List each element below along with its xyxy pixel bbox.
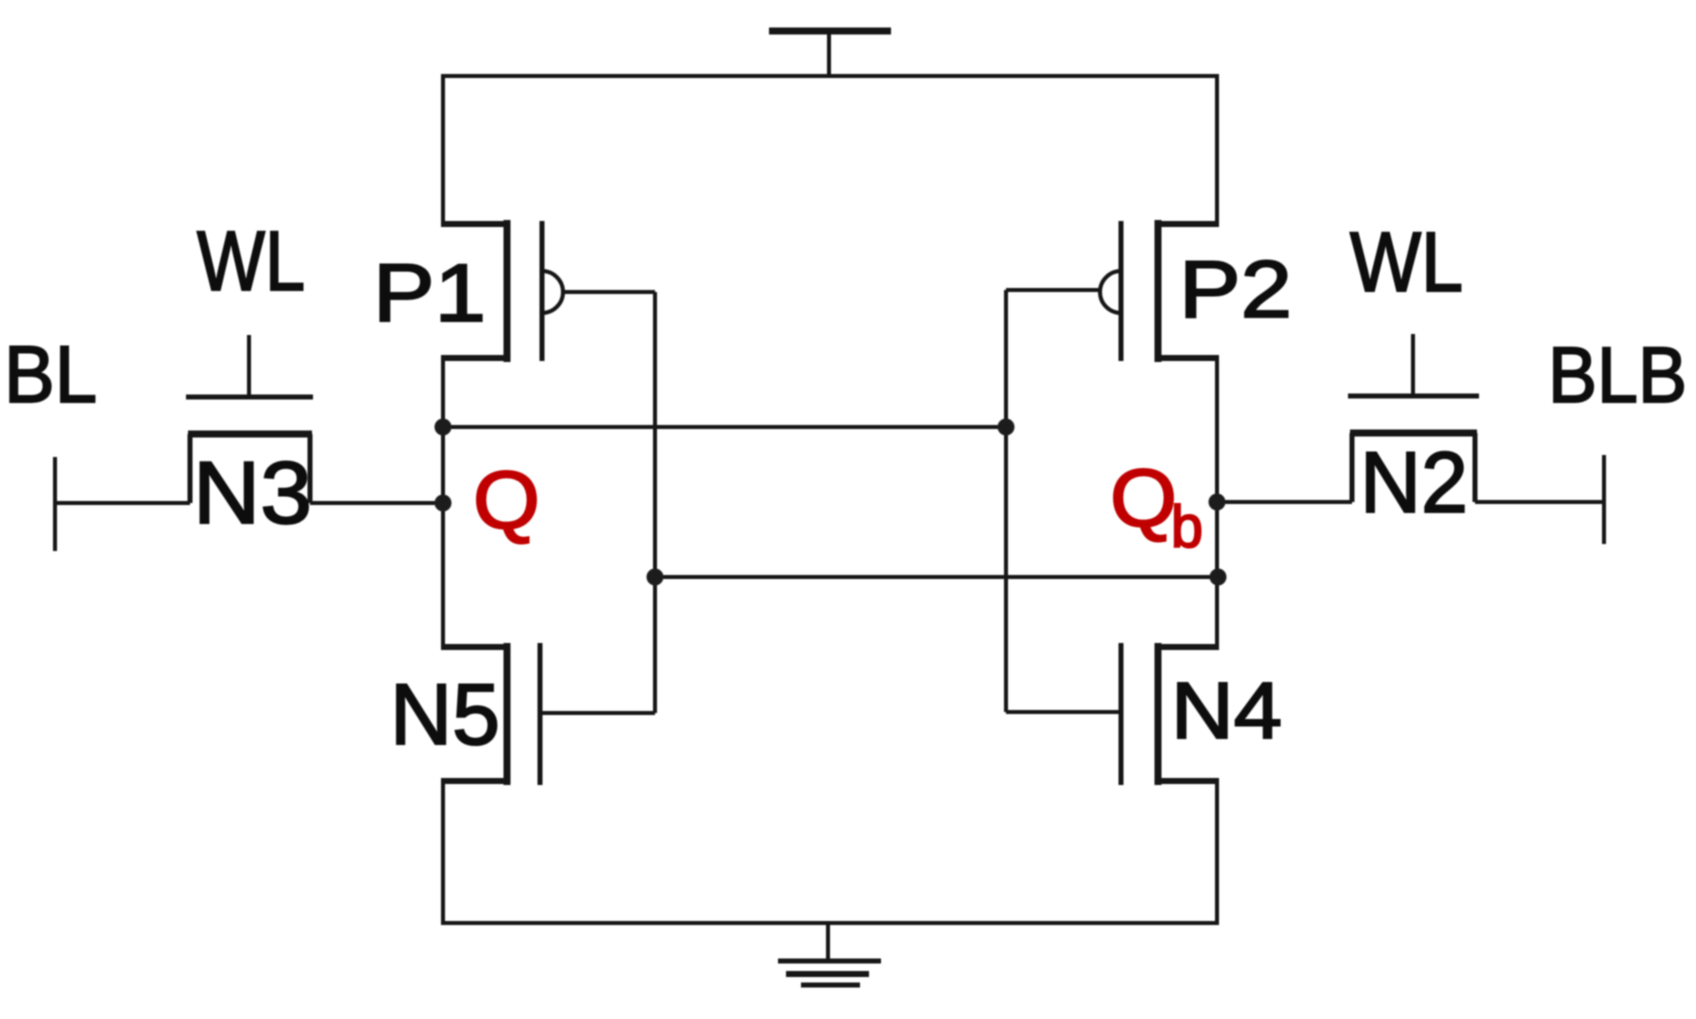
svg-text:P1: P1 — [373, 248, 486, 339]
svg-text:N2: N2 — [1360, 435, 1468, 531]
transistor P1 drain lead — [441, 355, 507, 361]
transistor N3 WL gate stem — [247, 335, 251, 397]
transistor N2 right leg — [1473, 433, 1478, 502]
transistor N3 right leg — [308, 434, 313, 503]
transistor P1 gate bar — [540, 221, 545, 361]
transistor P1 channel bar — [504, 220, 511, 362]
wire node Qb rail to N2 — [1217, 500, 1352, 504]
VDD supply bar — [769, 28, 891, 35]
svg-text:b: b — [1171, 494, 1203, 560]
BL terminal bar — [53, 457, 57, 551]
node Qb-left junction dot — [647, 569, 664, 586]
svg-text:WL: WL — [197, 214, 305, 308]
transistor N4 source lead — [1158, 778, 1219, 784]
node Qb junction dot — [1210, 569, 1227, 586]
transistor P1 gate bubble — [542, 271, 563, 313]
node Q-right junction dot — [998, 419, 1015, 436]
wire node Q horizontal — [443, 425, 1006, 429]
transistor N2 left leg — [1350, 433, 1355, 502]
node N2-drain junction dot — [1209, 494, 1226, 511]
svg-text:N3: N3 — [193, 443, 312, 542]
transistor N5 drain lead — [441, 644, 507, 650]
transistor P2 drain lead — [1158, 355, 1219, 361]
wire P2 gate to cross-coupling — [1006, 288, 1100, 292]
svg-text:BL: BL — [4, 330, 97, 420]
svg-text:BLB: BLB — [1548, 330, 1687, 419]
wire N3 to node Q rail — [310, 501, 443, 505]
wire P1 gate to cross-coupling — [563, 290, 655, 294]
wire BL to N3 — [57, 501, 190, 505]
transistor N5 source lead — [441, 778, 507, 784]
node N3-drain junction dot — [435, 495, 452, 512]
wire left rail middle (P1 drain to N5 drain, node Q) — [441, 358, 445, 647]
svg-text:Q: Q — [1110, 453, 1177, 544]
transistor N5 gate bar — [538, 643, 543, 785]
BLB terminal bar — [1602, 455, 1606, 544]
transistor N4 channel bar — [1155, 643, 1162, 785]
svg-text:N4: N4 — [1171, 666, 1282, 755]
transistor N3 channel bar — [188, 431, 312, 438]
ground bar 2 — [786, 971, 869, 977]
transistor P2 source lead — [1158, 221, 1219, 227]
transistor P2 channel bar — [1155, 220, 1162, 362]
transistor N3 gate bar — [186, 395, 313, 400]
transistor N4 drain lead — [1158, 644, 1219, 650]
transistor P2 gate bar — [1119, 221, 1124, 361]
svg-text:Q: Q — [473, 455, 540, 546]
ground bar 1 — [778, 959, 881, 964]
transistor N3 left leg — [188, 434, 193, 503]
wire node Qb horizontal — [655, 575, 1217, 579]
svg-text:P2: P2 — [1179, 245, 1292, 335]
transistor N2 WL gate stem — [1411, 334, 1415, 396]
wire right rail middle (P2 drain to N4 drain, node Qb) — [1215, 358, 1219, 647]
ground bar 3 — [801, 983, 860, 988]
node Q junction dot — [435, 419, 452, 436]
ground stem — [826, 923, 830, 961]
wire top rail VDD — [443, 76, 1217, 224]
wire bottom rail GND — [443, 781, 1217, 923]
wire left cross-coupling vertical (P1,N5 gates to Qb) — [653, 292, 657, 713]
transistor P2 gate bubble — [1100, 271, 1121, 313]
wire N2 to BLB — [1475, 500, 1604, 504]
wire N4 gate to cross-coupling — [1006, 710, 1121, 714]
transistor N2 gate bar — [1348, 394, 1479, 399]
svg-text:N5: N5 — [390, 667, 500, 763]
VDD stem wire — [827, 33, 831, 78]
transistor P1 source lead — [441, 221, 507, 227]
wire N5 gate to cross-coupling — [540, 711, 655, 715]
transistor N2 channel bar — [1350, 430, 1477, 437]
svg-text:WL: WL — [1350, 215, 1463, 309]
transistor N5 channel bar — [504, 643, 511, 785]
wire right cross-coupling vertical (P2,N4 gates to Q) — [1004, 290, 1008, 712]
transistor N4 gate bar — [1119, 643, 1124, 785]
